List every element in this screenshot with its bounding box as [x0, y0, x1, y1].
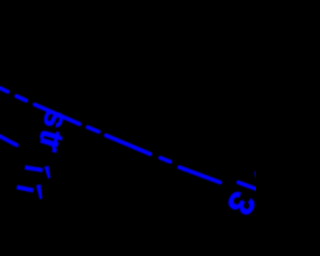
wire dash of second line at left edge: [0, 135, 17, 145]
wire dash 8 (exits right edge): [238, 182, 257, 189]
label first rotated digit 1 (bar stroke): [25, 165, 43, 172]
wire dash 3 (long, passes under letter s): [35, 105, 80, 124]
wire dash 4: [88, 127, 99, 132]
faint partial dash at right edge: [255, 173, 256, 177]
wire dash 7 (long): [179, 167, 220, 182]
wire dash 2: [17, 96, 27, 100]
wire dash 5 (long): [106, 135, 150, 154]
label second rotated digit 1 (descender stroke): [36, 184, 42, 199]
label second rotated digit 1 (bar stroke): [17, 185, 34, 193]
label first rotated digit 1 (descender stroke): [44, 166, 50, 179]
wire dash 1 of blue dash-dot route line: [0, 86, 8, 92]
wire dash 6: [160, 158, 170, 162]
